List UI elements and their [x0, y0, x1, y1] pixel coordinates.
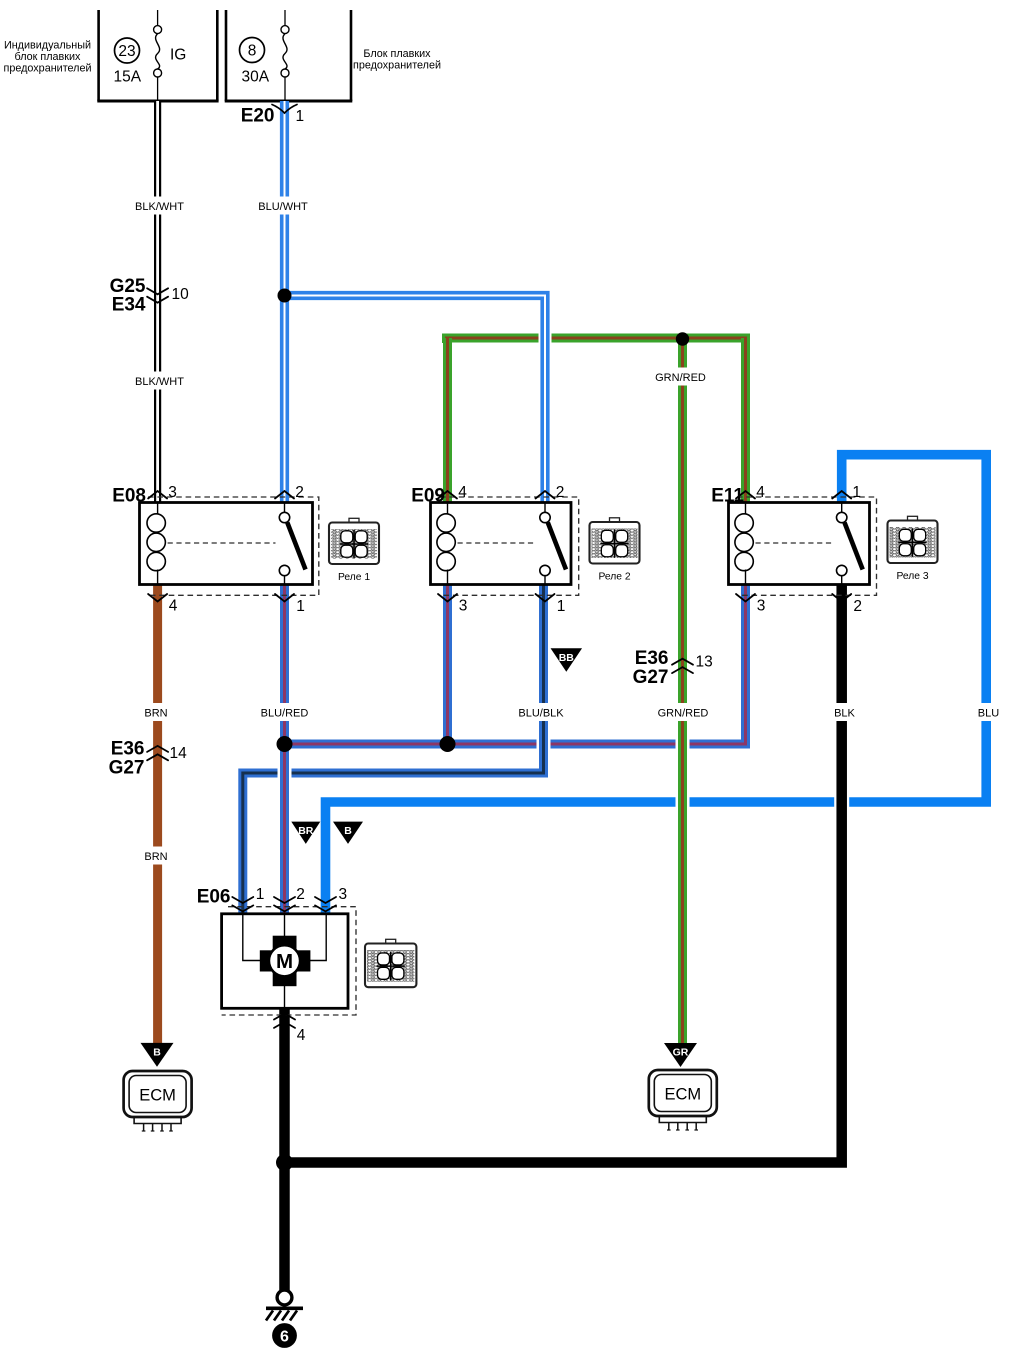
- svg-text:1: 1: [256, 886, 265, 903]
- svg-text:3: 3: [459, 598, 468, 615]
- relay E08 dashed connector box: [148, 497, 319, 595]
- svg-text:23: 23: [118, 43, 135, 60]
- E09 pin 2: [536, 484, 565, 501]
- motor unit E06 dashed connector box: [222, 907, 356, 1015]
- svg-text:G27: G27: [633, 667, 669, 688]
- destination triangle BB: [551, 648, 583, 671]
- junction dot GRN/RED split: [676, 332, 689, 345]
- destination triangle BR: [291, 822, 320, 844]
- svg-text:1: 1: [296, 108, 305, 125]
- ground symbol: [266, 1290, 303, 1320]
- label Реле 3: [896, 571, 928, 582]
- svg-text:1: 1: [296, 598, 305, 615]
- wire BLU thick: E11 pin1 up, right, down, left to E06 pin3: [326, 455, 987, 913]
- wire BLU/RED E09 pin3 drop to junction: [443, 585, 452, 745]
- connector E20 pin 1: [241, 105, 304, 127]
- svg-text:6: 6: [280, 1329, 289, 1346]
- radiator fan icon fan2: [590, 518, 640, 564]
- destination triangle GR (green to ECM): [664, 1043, 697, 1067]
- relay E09 coil: [437, 504, 455, 584]
- fuse F8 30A: [240, 10, 290, 101]
- relay E09 body: [431, 503, 572, 585]
- svg-text:BLK/WHT: BLK/WHT: [135, 376, 184, 388]
- svg-text:BLK/WHT: BLK/WHT: [135, 201, 184, 213]
- svg-text:GRN/RED: GRN/RED: [655, 372, 706, 384]
- wire GRN/RED vertical from junction to ECM (GR): [676, 338, 690, 1043]
- motor M symbol: [260, 936, 311, 987]
- svg-text:4: 4: [756, 484, 765, 501]
- svg-text:блок плавких: блок плавких: [15, 51, 81, 63]
- annotation: left fuse box text: [3, 40, 91, 75]
- svg-text:E20: E20: [241, 106, 275, 127]
- in-line connector G25/E34 pin 10: [110, 276, 190, 316]
- destination triangle B (to E06 area): [333, 822, 363, 844]
- junction dot BLU/RED at E09 column: [440, 736, 456, 752]
- svg-text:IG: IG: [170, 47, 186, 64]
- svg-text:BR: BR: [298, 825, 314, 837]
- E09 pin 4: [438, 484, 467, 501]
- relay E11 dashed connector box: [737, 497, 877, 595]
- svg-text:E34: E34: [112, 294, 146, 315]
- label BLK/WHT lower: [133, 372, 187, 390]
- wire BLU/RED from E08 pin1 down to E06 pin2: [278, 585, 292, 913]
- svg-text:G27: G27: [109, 758, 145, 779]
- svg-text:ECM: ECM: [139, 1087, 176, 1105]
- svg-text:E36: E36: [111, 739, 145, 760]
- svg-text:3: 3: [338, 886, 347, 903]
- label BLU/WHT: [256, 197, 310, 215]
- label BRN lower: [140, 847, 172, 865]
- svg-text:2: 2: [556, 484, 565, 501]
- relay E08 body: [140, 503, 313, 585]
- svg-text:3: 3: [168, 484, 177, 501]
- fuse F23 15A IG: [114, 10, 187, 101]
- E08 pin 4: [148, 594, 178, 615]
- svg-text:Блок плавких: Блок плавких: [363, 48, 431, 60]
- radiator fan icon fan1: [329, 518, 379, 564]
- svg-text:B: B: [153, 1046, 161, 1058]
- label Реле 2: [598, 572, 630, 583]
- label GRN/RED lower: [656, 703, 710, 721]
- label Реле 1: [338, 572, 370, 583]
- relay E08 switch: [279, 504, 305, 584]
- ECM module U-ECM-left: [124, 1071, 192, 1131]
- svg-text:Индивидуальный: Индивидуальный: [4, 40, 91, 52]
- wire GRN/RED E09 pin4 drop: [443, 338, 452, 503]
- wire GRN/RED E11 pin4 drop: [741, 338, 750, 503]
- wire BLK/WHT from fuse F23 to E08 pin3: [154, 101, 161, 503]
- ground node 6: [272, 1323, 297, 1348]
- E09 pin 3: [438, 594, 467, 615]
- svg-text:13: 13: [696, 654, 713, 671]
- svg-text:GRN/RED: GRN/RED: [658, 708, 709, 720]
- svg-text:2: 2: [853, 598, 862, 615]
- relay E08 coil: [147, 504, 165, 584]
- svg-text:1: 1: [557, 598, 566, 615]
- label BLK: [830, 703, 860, 721]
- label BLK/WHT upper: [133, 197, 187, 215]
- svg-text:E08: E08: [112, 486, 146, 507]
- relay E11 body: [729, 503, 870, 585]
- svg-text:15A: 15A: [114, 69, 142, 86]
- svg-text:2: 2: [296, 886, 305, 903]
- motor unit E06 body: [222, 914, 348, 1009]
- E09 pin 1: [536, 594, 566, 615]
- connector E08 label: [112, 486, 146, 507]
- svg-text:Реле 3: Реле 3: [896, 571, 928, 582]
- E11 pin 1: [832, 484, 861, 501]
- E06 pin 2: [274, 886, 305, 911]
- svg-text:BLK: BLK: [834, 708, 855, 720]
- in-line connector E36/G27 pin 13: [633, 648, 713, 688]
- E11 pin 2: [832, 594, 862, 615]
- label BLU/RED: [258, 703, 312, 721]
- wire BLU/WHT branch to E09 pin2: [285, 296, 546, 503]
- fuse box 1 (individual fuse box): [97, 10, 218, 101]
- relay E09 switch: [540, 504, 566, 584]
- svg-text:ECM: ECM: [664, 1086, 701, 1104]
- relay E09 internal dashed link: [458, 542, 537, 544]
- connector E11 label: [711, 486, 744, 507]
- svg-text:10: 10: [172, 286, 190, 303]
- relay E09 dashed connector box: [440, 497, 579, 595]
- svg-text:E06: E06: [197, 887, 231, 908]
- junction dot BLK bottom corner: [276, 1154, 293, 1171]
- svg-text:3: 3: [757, 598, 766, 615]
- junction dot BLU/RED at E08 column: [277, 736, 293, 752]
- svg-text:BRN: BRN: [144, 708, 167, 720]
- svg-text:Реле 1: Реле 1: [338, 572, 370, 583]
- label GRN/RED upper: [654, 368, 708, 386]
- relay E11 internal dashed link: [756, 542, 833, 544]
- wire GRN/RED horizontal bus y=338: [447, 338, 746, 343]
- svg-text:4: 4: [297, 1027, 306, 1044]
- label BLU: [974, 703, 1004, 721]
- svg-text:BLU/WHT: BLU/WHT: [258, 201, 308, 213]
- label BLU/BLK: [514, 703, 568, 721]
- svg-text:8: 8: [248, 43, 257, 60]
- E08 pin 3: [148, 484, 177, 501]
- svg-text:1: 1: [852, 484, 861, 501]
- svg-text:BRN: BRN: [144, 851, 167, 863]
- svg-text:E36: E36: [635, 648, 669, 669]
- motor M internal wiring: [243, 914, 326, 1008]
- E06 pin 3: [315, 886, 347, 911]
- svg-text:M: M: [276, 950, 293, 973]
- svg-text:предохранителей: предохранителей: [353, 60, 441, 72]
- radiator fan icon fan4: [365, 939, 416, 987]
- relay E08 internal dashed link: [168, 542, 276, 544]
- wire BLK from E06 pin4 down to ground: [279, 1008, 290, 1290]
- radiator fan icon fan3: [888, 516, 938, 563]
- in-line connector E36/G27 pin 14: [109, 739, 188, 779]
- svg-text:BLU/RED: BLU/RED: [261, 708, 309, 720]
- wire BLU/WHT from E20 down to E08 pin2: [280, 101, 289, 503]
- svg-text:GR: GR: [673, 1047, 689, 1059]
- E11 pin 3: [736, 594, 765, 615]
- svg-text:4: 4: [169, 598, 178, 615]
- E06 pin 4: [274, 1014, 306, 1045]
- relay E11 switch: [837, 504, 863, 584]
- svg-text:4: 4: [458, 484, 467, 501]
- relay E11 coil: [735, 504, 753, 584]
- fuse box 2 (main fuse box): [225, 10, 353, 101]
- svg-text:2: 2: [295, 484, 304, 501]
- wire BLU/BLK from E09 pin1 down-left to E06 pin1: [243, 585, 544, 914]
- svg-text:предохранителей: предохранителей: [3, 63, 91, 75]
- connector E09 label: [411, 486, 445, 507]
- E06 pin 1: [232, 886, 264, 911]
- E08 pin 2: [275, 484, 304, 501]
- svg-text:BB: BB: [559, 652, 575, 664]
- junction dot BLU/WHT split: [278, 289, 292, 303]
- svg-text:Реле 2: Реле 2: [598, 572, 630, 583]
- svg-text:14: 14: [170, 745, 188, 762]
- label BRN upper: [140, 703, 172, 721]
- wire BLU/RED horizontal y=744 with riser to E11 pin3: [285, 585, 746, 744]
- annotation: right fuse box text: [353, 48, 441, 72]
- ECM module U-ECM-right: [649, 1070, 717, 1130]
- svg-text:BLU: BLU: [978, 708, 999, 720]
- svg-text:30A: 30A: [242, 69, 270, 86]
- wire BLK from E11 pin2 down and left along bottom: [285, 585, 842, 1163]
- destination triangle B (brown to ECM): [141, 1043, 174, 1067]
- E11 pin 4: [736, 484, 765, 501]
- svg-text:BLU/BLK: BLU/BLK: [518, 708, 564, 720]
- connector E06 label: [197, 887, 231, 908]
- wire BRN from E08 pin4 down to ECM (B): [153, 585, 162, 1043]
- E08 pin 1: [275, 594, 305, 615]
- svg-text:B: B: [344, 825, 352, 837]
